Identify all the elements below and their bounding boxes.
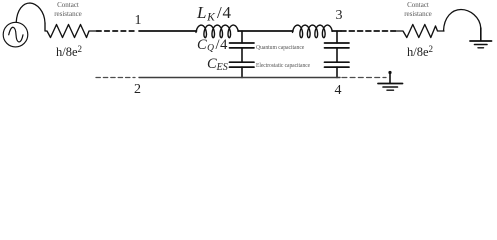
node label 3: [336, 8, 343, 24]
capacitor C1 CQ/4 quantum capacitance: [230, 43, 255, 48]
label CQ/4: [197, 37, 228, 54]
wire C2 to bottom rail: [241, 67, 243, 77]
capacitor C3 quantum capacitance right: [325, 43, 350, 48]
label h/8e2 right: [407, 44, 433, 60]
wire C4 to bottom rail: [336, 67, 338, 77]
label LK/4: [197, 3, 232, 24]
ground GND2 bottom right: [378, 73, 403, 91]
AC source V1: [3, 22, 28, 47]
wire between C3 and C4: [336, 48, 338, 62]
wire between C1 and C2: [241, 48, 243, 62]
label h/8e2 left: [56, 44, 82, 60]
wire top rail between coils: [238, 30, 293, 32]
wire dashed bottom-right: [342, 77, 386, 79]
wire dashed top-left: [97, 30, 137, 32]
wire dashed top-right: [341, 30, 398, 32]
wire dashed bottom-left: [96, 77, 135, 79]
label CES: [207, 56, 228, 73]
resistor R1 h/8e2: [45, 23, 99, 38]
node label 2: [134, 82, 141, 98]
label electrostatic capacitance: [256, 62, 310, 69]
wire top rail node1 to inductor L1: [139, 30, 197, 32]
node label 4: [335, 83, 342, 99]
capacitor C2 CES electrostatic capacitance: [230, 62, 255, 67]
wire coil L2 to node 3: [332, 30, 341, 32]
wire bottom rail solid: [139, 77, 340, 79]
capacitor C4 electrostatic capacitance right: [325, 62, 350, 67]
label quantum capacitance: [256, 44, 304, 51]
label contact resistance left: [48, 1, 88, 18]
node label 1: [135, 13, 142, 29]
wire arc from source to left resistor: [16, 3, 45, 23]
inductor L2 LK/4: [293, 25, 333, 38]
label contact resistance right: [398, 1, 438, 18]
ground GND1 top right: [470, 28, 492, 48]
node A junction wire down to C1: [241, 31, 243, 43]
node junction dot above ground GND2: [388, 71, 391, 74]
resistor R2 h/8e2: [397, 25, 444, 38]
wire arc from R2 up to ground: [444, 10, 481, 32]
node 3 junction wire down to C3: [336, 31, 338, 43]
inductor L1 LK/4: [196, 25, 238, 38]
